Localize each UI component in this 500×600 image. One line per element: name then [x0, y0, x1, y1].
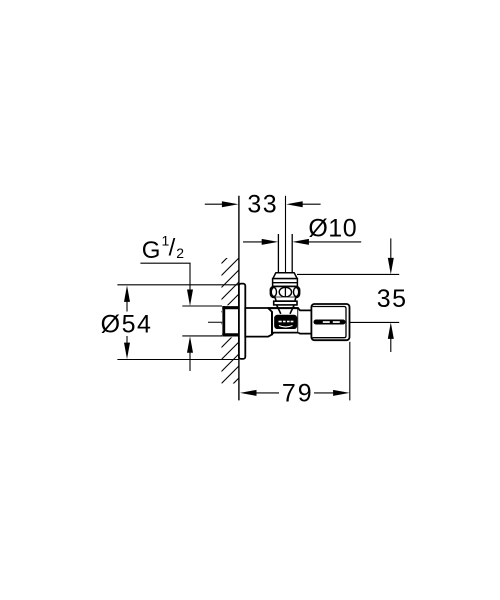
svg-text:2: 2	[176, 245, 184, 261]
svg-text:Ø54: Ø54	[101, 311, 153, 339]
svg-text:Ø10: Ø10	[308, 215, 357, 243]
svg-text:/: /	[169, 235, 176, 262]
svg-text:79: 79	[282, 379, 314, 407]
svg-text:G: G	[142, 237, 161, 264]
svg-text:33: 33	[247, 191, 278, 219]
svg-text:35: 35	[377, 285, 408, 313]
